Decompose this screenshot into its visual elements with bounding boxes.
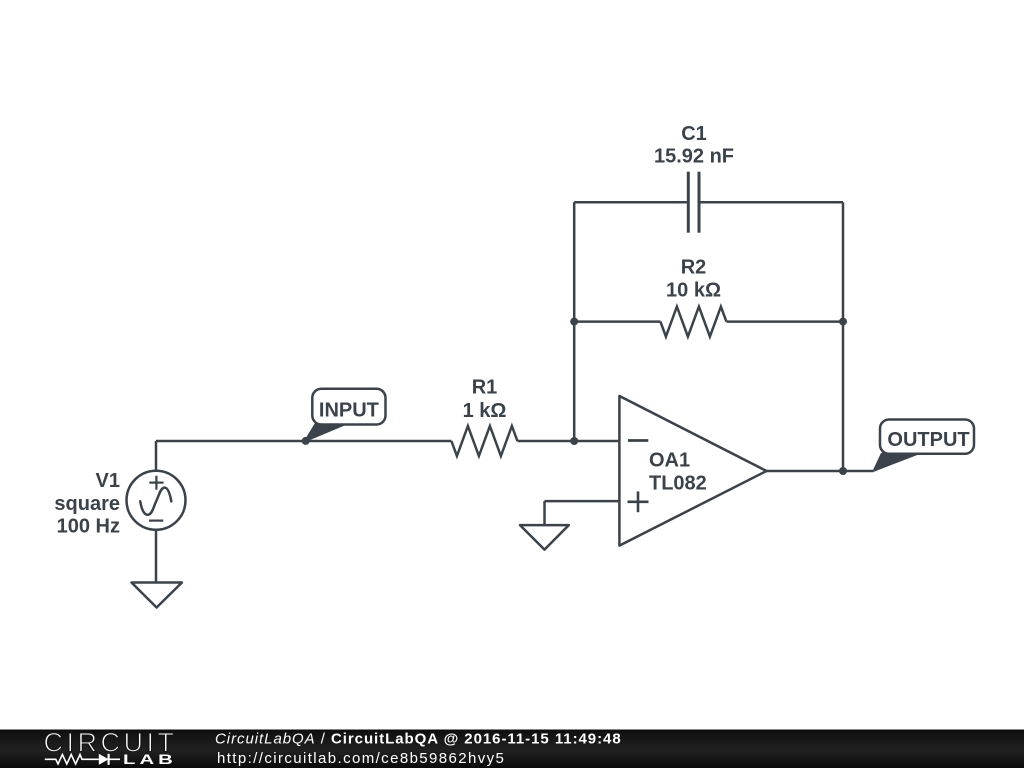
svg-text:TL082: TL082 [649, 473, 707, 495]
svg-text:C1: C1 [681, 123, 707, 145]
wire op-amp plus input [545, 500, 620, 503]
wire top row left to C1 [574, 201, 687, 204]
svg-text:OA1: OA1 [649, 450, 690, 472]
node dot output junction [839, 467, 847, 475]
V1 sine symbol [140, 488, 171, 515]
wire R2 row left [574, 320, 660, 323]
resistor R2 [660, 307, 726, 337]
node dot INPUT junction [302, 437, 310, 445]
wire R1 to op-amp minus [517, 440, 619, 443]
resistor R2 labels [666, 257, 721, 302]
svg-text:10 kΩ: 10 kΩ [666, 280, 721, 302]
svg-text:square: square [54, 493, 120, 515]
flag INPUT box [312, 389, 385, 425]
wire op-amp output [767, 470, 874, 473]
svg-text:V1: V1 [96, 470, 120, 492]
resistor R1 [451, 426, 517, 456]
svg-text:LAB: LAB [123, 751, 177, 767]
svg-text:INPUT: INPUT [319, 399, 379, 421]
logo resistor squiggle [45, 755, 99, 765]
wire feedback left vertical [573, 202, 576, 441]
svg-text:http://circuitlab.com/ce8b5986: http://circuitlab.com/ce8b59862hvy5 [217, 750, 505, 767]
logo diode cathode bar [107, 754, 109, 765]
ground for V1 [132, 583, 182, 608]
wire top row C1 to right [700, 201, 843, 204]
node dot feedback/minus junction [570, 437, 578, 445]
svg-text:R1: R1 [472, 377, 498, 399]
resistor R1 labels [463, 377, 507, 422]
node dot R2 right junction [839, 318, 847, 326]
op-amp OA1 [619, 396, 766, 546]
V1 minus mark [149, 519, 163, 521]
voltage source V1 [127, 471, 186, 530]
flag OUTPUT tail [874, 454, 918, 471]
V1 labels [54, 470, 120, 538]
logo diode lead [109, 758, 120, 760]
capacitor C1 labels [654, 123, 734, 168]
svg-text:CircuitLabQA / CircuitLabQA @: CircuitLabQA / CircuitLabQA @ 2016-11-15… [215, 730, 622, 747]
op-amp plus pin symbol [628, 491, 649, 512]
logo diode [99, 754, 109, 765]
wire R2 row right [726, 320, 843, 323]
node dot R2 left junction [570, 318, 578, 326]
svg-text:15.92 nF: 15.92 nF [654, 146, 734, 168]
op-amp OA1 labels [649, 450, 707, 495]
capacitor C1 [688, 172, 699, 233]
wire V1 bottom stub [155, 530, 158, 583]
svg-text:100 Hz: 100 Hz [57, 516, 120, 538]
op-amp minus pin symbol [628, 439, 648, 442]
wire plus input ground stub [543, 501, 546, 525]
flag OUTPUT box [880, 420, 974, 454]
svg-text:R2: R2 [681, 257, 707, 279]
svg-text:OUTPUT: OUTPUT [887, 429, 969, 451]
V1 plus mark [149, 476, 163, 490]
ground for op-amp plus input [520, 525, 569, 550]
wire right feedback vertical [842, 202, 845, 471]
wire V1 top stub [155, 441, 158, 471]
svg-text:1 kΩ: 1 kΩ [463, 400, 507, 422]
flag INPUT tail [305, 425, 344, 441]
wire input net from V1 to R1 [156, 440, 451, 443]
